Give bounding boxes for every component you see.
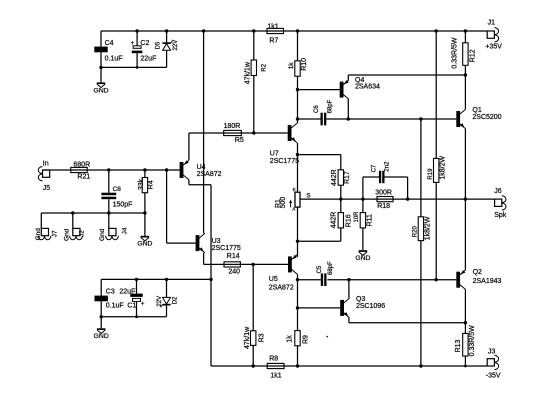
svg-text:240: 240 <box>228 269 240 276</box>
wire Q3 base line <box>298 307 341 309</box>
svg-text:GND: GND <box>355 255 370 262</box>
svg-text:180R: 180R <box>224 123 241 130</box>
svg-text:J4: J4 <box>121 227 128 234</box>
svg-text:R18: R18 <box>377 203 390 210</box>
node R17 tap <box>296 153 299 156</box>
svg-text:22uF: 22uF <box>140 55 156 62</box>
svg-text:R21: R21 <box>77 174 90 181</box>
wire top +rail <box>101 30 487 32</box>
svg-text:2SA872: 2SA872 <box>269 284 294 291</box>
svg-text:2SA634: 2SA634 <box>355 83 380 90</box>
connector J7 Gnd <box>35 213 58 240</box>
svg-text:R20: R20 <box>413 226 419 238</box>
svg-text:C4: C4 <box>105 40 114 47</box>
ground GND (lower filter) <box>94 328 109 340</box>
wire U3 collector to +rail <box>203 31 205 233</box>
svg-text:0.33R/5W: 0.33R/5W <box>469 325 476 357</box>
wire U7 collector <box>297 119 299 123</box>
node input/C8 <box>107 168 110 171</box>
svg-text:R9: R9 <box>303 335 310 344</box>
svg-text:47k/1w: 47k/1w <box>244 61 251 84</box>
svg-text:Gnd: Gnd <box>35 228 42 241</box>
resistor R8 1k1 <box>267 356 284 380</box>
connector J5 In <box>38 160 50 192</box>
svg-text:+: + <box>141 302 145 308</box>
svg-text:R4: R4 <box>148 180 155 189</box>
connector J6 Spk <box>494 188 507 219</box>
svg-text:2n2: 2n2 <box>384 161 390 172</box>
connector J3 -35V <box>486 349 501 380</box>
wire Q1 emitter to output <box>464 129 466 199</box>
wire Q3 emitter line <box>348 318 350 323</box>
svg-text:2SC1096: 2SC1096 <box>356 303 385 310</box>
svg-text:C3: C3 <box>106 288 115 295</box>
resistor R7 1k1 <box>267 24 284 45</box>
wire output line <box>341 198 466 200</box>
svg-text:1k: 1k <box>287 335 294 343</box>
wire lower box top <box>101 278 211 280</box>
wire U3 emitter to R14 line <box>203 253 205 265</box>
svg-text:R12: R12 <box>470 49 477 62</box>
svg-text:R17: R17 <box>344 171 351 184</box>
svg-text:Q2: Q2 <box>473 269 482 276</box>
wire R10 node to C6 line <box>297 90 299 119</box>
wire Q2 collector <box>464 290 466 323</box>
capacitor C4 <box>94 31 122 67</box>
resistor R12 0.33R/5W <box>451 29 476 76</box>
svg-text:Gnd: Gnd <box>63 228 70 241</box>
svg-text:R5: R5 <box>235 137 244 144</box>
capacitor C5 68pF <box>317 261 334 286</box>
svg-text:J3: J3 <box>488 349 496 356</box>
svg-text:22V: 22V <box>173 40 179 51</box>
stray mark <box>326 336 328 338</box>
svg-text:442R: 442R <box>331 169 338 186</box>
svg-text:J1: J1 <box>488 19 496 26</box>
node R16 tap <box>296 240 299 243</box>
svg-text:Spk: Spk <box>494 212 507 219</box>
svg-text:680R: 680R <box>73 161 90 168</box>
wire U4 emitter to R5 line <box>188 133 190 160</box>
capacitor C7 2n2 <box>363 161 409 201</box>
svg-text:GND: GND <box>137 241 152 248</box>
svg-text:E: E <box>293 187 296 192</box>
svg-text:0.33R/5W: 0.33R/5W <box>451 37 458 69</box>
capacitor C2 <box>131 29 157 69</box>
wire R5 line <box>189 132 288 134</box>
resistor R4 33k <box>138 168 154 236</box>
wire Q1 collector <box>464 75 466 109</box>
svg-text:0.1uF: 0.1uF <box>106 302 124 309</box>
svg-text:R11: R11 <box>367 214 374 226</box>
svg-text:1k: 1k <box>288 62 295 70</box>
svg-text:R19: R19 <box>428 168 434 180</box>
svg-text:R14: R14 <box>227 253 240 260</box>
svg-text:68pF: 68pF <box>328 99 334 113</box>
transistor Q2 2SA1943 <box>456 270 465 290</box>
svg-text:U5: U5 <box>269 276 278 283</box>
wire ground stem (lower filter) <box>100 317 102 329</box>
resistor R14 240 <box>224 253 240 275</box>
wire U7 emitter / R1 column <box>297 143 299 192</box>
svg-text:J5: J5 <box>43 185 51 192</box>
svg-text:2SC1775: 2SC1775 <box>212 245 241 252</box>
resistor R19 1k8/2W <box>428 29 446 281</box>
capacitor C6 68pF <box>314 99 334 125</box>
svg-text:D5: D5 <box>156 41 162 49</box>
transistor Q4 2SA634 <box>340 80 349 100</box>
wire gnd bus <box>41 212 145 214</box>
svg-text:GND: GND <box>94 333 109 340</box>
svg-text:J7: J7 <box>52 230 59 237</box>
wire upper box bottom <box>101 66 167 68</box>
svg-text:R13: R13 <box>455 339 462 352</box>
capacitor C3 <box>95 279 137 316</box>
svg-text:1k1: 1k1 <box>267 24 278 31</box>
zener diode D5 22V <box>156 29 180 67</box>
wire Q2 emitter to output <box>464 199 466 270</box>
svg-text:U7: U7 <box>270 151 279 158</box>
svg-text:1k1: 1k1 <box>270 372 281 379</box>
svg-text:0.1uF: 0.1uF <box>105 55 123 62</box>
node Q3 base line <box>296 306 299 309</box>
wire U5 collector column <box>297 274 299 330</box>
resistor R10 1k <box>288 29 308 89</box>
wire input line <box>43 169 180 171</box>
connector J4 Gnd <box>99 211 128 241</box>
svg-text:10R: 10R <box>354 211 360 223</box>
svg-text:R7: R7 <box>269 37 278 44</box>
svg-text:-35V: -35V <box>486 373 501 380</box>
potentiometer R1 500 <box>275 187 300 257</box>
svg-text:C2: C2 <box>140 40 149 47</box>
node output <box>464 197 467 200</box>
connector J1 +35V <box>485 19 502 50</box>
svg-text:J2: J2 <box>79 230 86 237</box>
node dogleg/lower box <box>209 278 212 281</box>
svg-text:D2: D2 <box>173 296 179 304</box>
svg-text:300R: 300R <box>375 190 392 197</box>
svg-text:R3: R3 <box>259 333 266 342</box>
transistor U7 2SC1775 <box>288 123 297 143</box>
resistor R18 300R <box>375 190 393 211</box>
wire Q4 emitter to y75 <box>347 75 349 80</box>
resistor R13 0.33R/5W <box>455 323 476 368</box>
resistor R16 442R <box>330 199 352 228</box>
svg-text:33k: 33k <box>138 178 145 190</box>
svg-text:S: S <box>306 193 310 200</box>
svg-text:+35V: +35V <box>485 44 502 51</box>
wire R16 tap <box>298 240 341 242</box>
transistor U5 2SA872 <box>288 255 297 275</box>
transistor U4 2SA872 <box>180 160 189 180</box>
ground GND (upper filter) <box>93 82 108 94</box>
svg-text:68pF: 68pF <box>328 261 334 275</box>
node wiper/R16/R17 <box>339 197 342 200</box>
svg-text:22V: 22V <box>157 296 163 307</box>
svg-text:Gnd: Gnd <box>99 228 106 241</box>
wire U3 base tap <box>166 170 168 243</box>
resistor R21 680R <box>71 161 91 180</box>
svg-text:+: + <box>131 41 135 47</box>
svg-text:C1: C1 <box>127 302 136 309</box>
wire Q4 base <box>296 88 299 91</box>
connector J2 Gnd <box>63 211 85 241</box>
svg-text:C6: C6 <box>314 105 320 113</box>
svg-text:C7: C7 <box>371 164 377 172</box>
wire lower box bottom <box>101 316 166 318</box>
svg-text:In: In <box>43 160 49 167</box>
resistor R20 1k8/2W <box>413 117 432 367</box>
svg-text:2SA1943: 2SA1943 <box>473 278 502 285</box>
svg-text:GND: GND <box>93 87 108 94</box>
svg-text:C8: C8 <box>113 186 122 193</box>
svg-text:C5: C5 <box>317 265 323 273</box>
transistor Q1 2SC5200 <box>456 109 465 129</box>
resistor R17 442R <box>331 169 351 199</box>
wire Q4 collector <box>347 99 349 119</box>
wire R1 wiper S <box>300 198 341 200</box>
resistor R9 1k <box>287 331 310 368</box>
capacitor C8 150pF <box>101 170 132 213</box>
wire Q1 base line <box>298 118 321 120</box>
resistor R11 10R <box>354 197 374 250</box>
wire R17 tap <box>298 154 341 156</box>
wire U4 collector dogleg <box>188 180 190 185</box>
svg-text:2SC1775: 2SC1775 <box>270 158 299 165</box>
ground GND (R11) <box>355 250 370 262</box>
svg-text:R10: R10 <box>301 58 308 71</box>
zener diode D2 22V <box>157 278 179 317</box>
wire R14 line <box>204 263 288 265</box>
svg-text:442R: 442R <box>330 212 337 229</box>
svg-text:500: 500 <box>280 197 287 209</box>
wire bottom -rail <box>211 365 487 367</box>
resistor R3 47k/1w <box>244 263 266 368</box>
wire Q4 emitter line <box>348 74 465 76</box>
transistor Q3 2SC1096 <box>340 298 349 318</box>
svg-text:2SA872: 2SA872 <box>197 171 222 178</box>
ground GND (R4) <box>137 236 152 248</box>
svg-text:Q3: Q3 <box>356 296 365 303</box>
svg-text:J6: J6 <box>494 188 502 195</box>
svg-text:2SC5200: 2SC5200 <box>472 114 501 121</box>
svg-text:R16: R16 <box>345 214 352 227</box>
svg-text:1k8/2W: 1k8/2W <box>440 155 447 179</box>
svg-text:R2: R2 <box>261 63 267 71</box>
capacitor C1 <box>130 278 145 318</box>
node C5 line <box>296 278 299 281</box>
transistor U3 2SC1775 <box>196 233 205 253</box>
resistor R2 47k/1w <box>244 29 267 134</box>
svg-text:R8: R8 <box>269 356 278 363</box>
svg-text:1k8/2W: 1k8/2W <box>424 216 431 240</box>
resistor R5 180R <box>224 123 244 144</box>
wire Q3 collector <box>348 280 350 298</box>
wire Q2 base line <box>298 279 321 281</box>
svg-text:47k/1w: 47k/1w <box>244 326 251 349</box>
svg-text:A: A <box>292 207 295 212</box>
wire ground stem (upper filter) <box>100 67 102 82</box>
svg-text:150pF: 150pF <box>113 201 133 208</box>
